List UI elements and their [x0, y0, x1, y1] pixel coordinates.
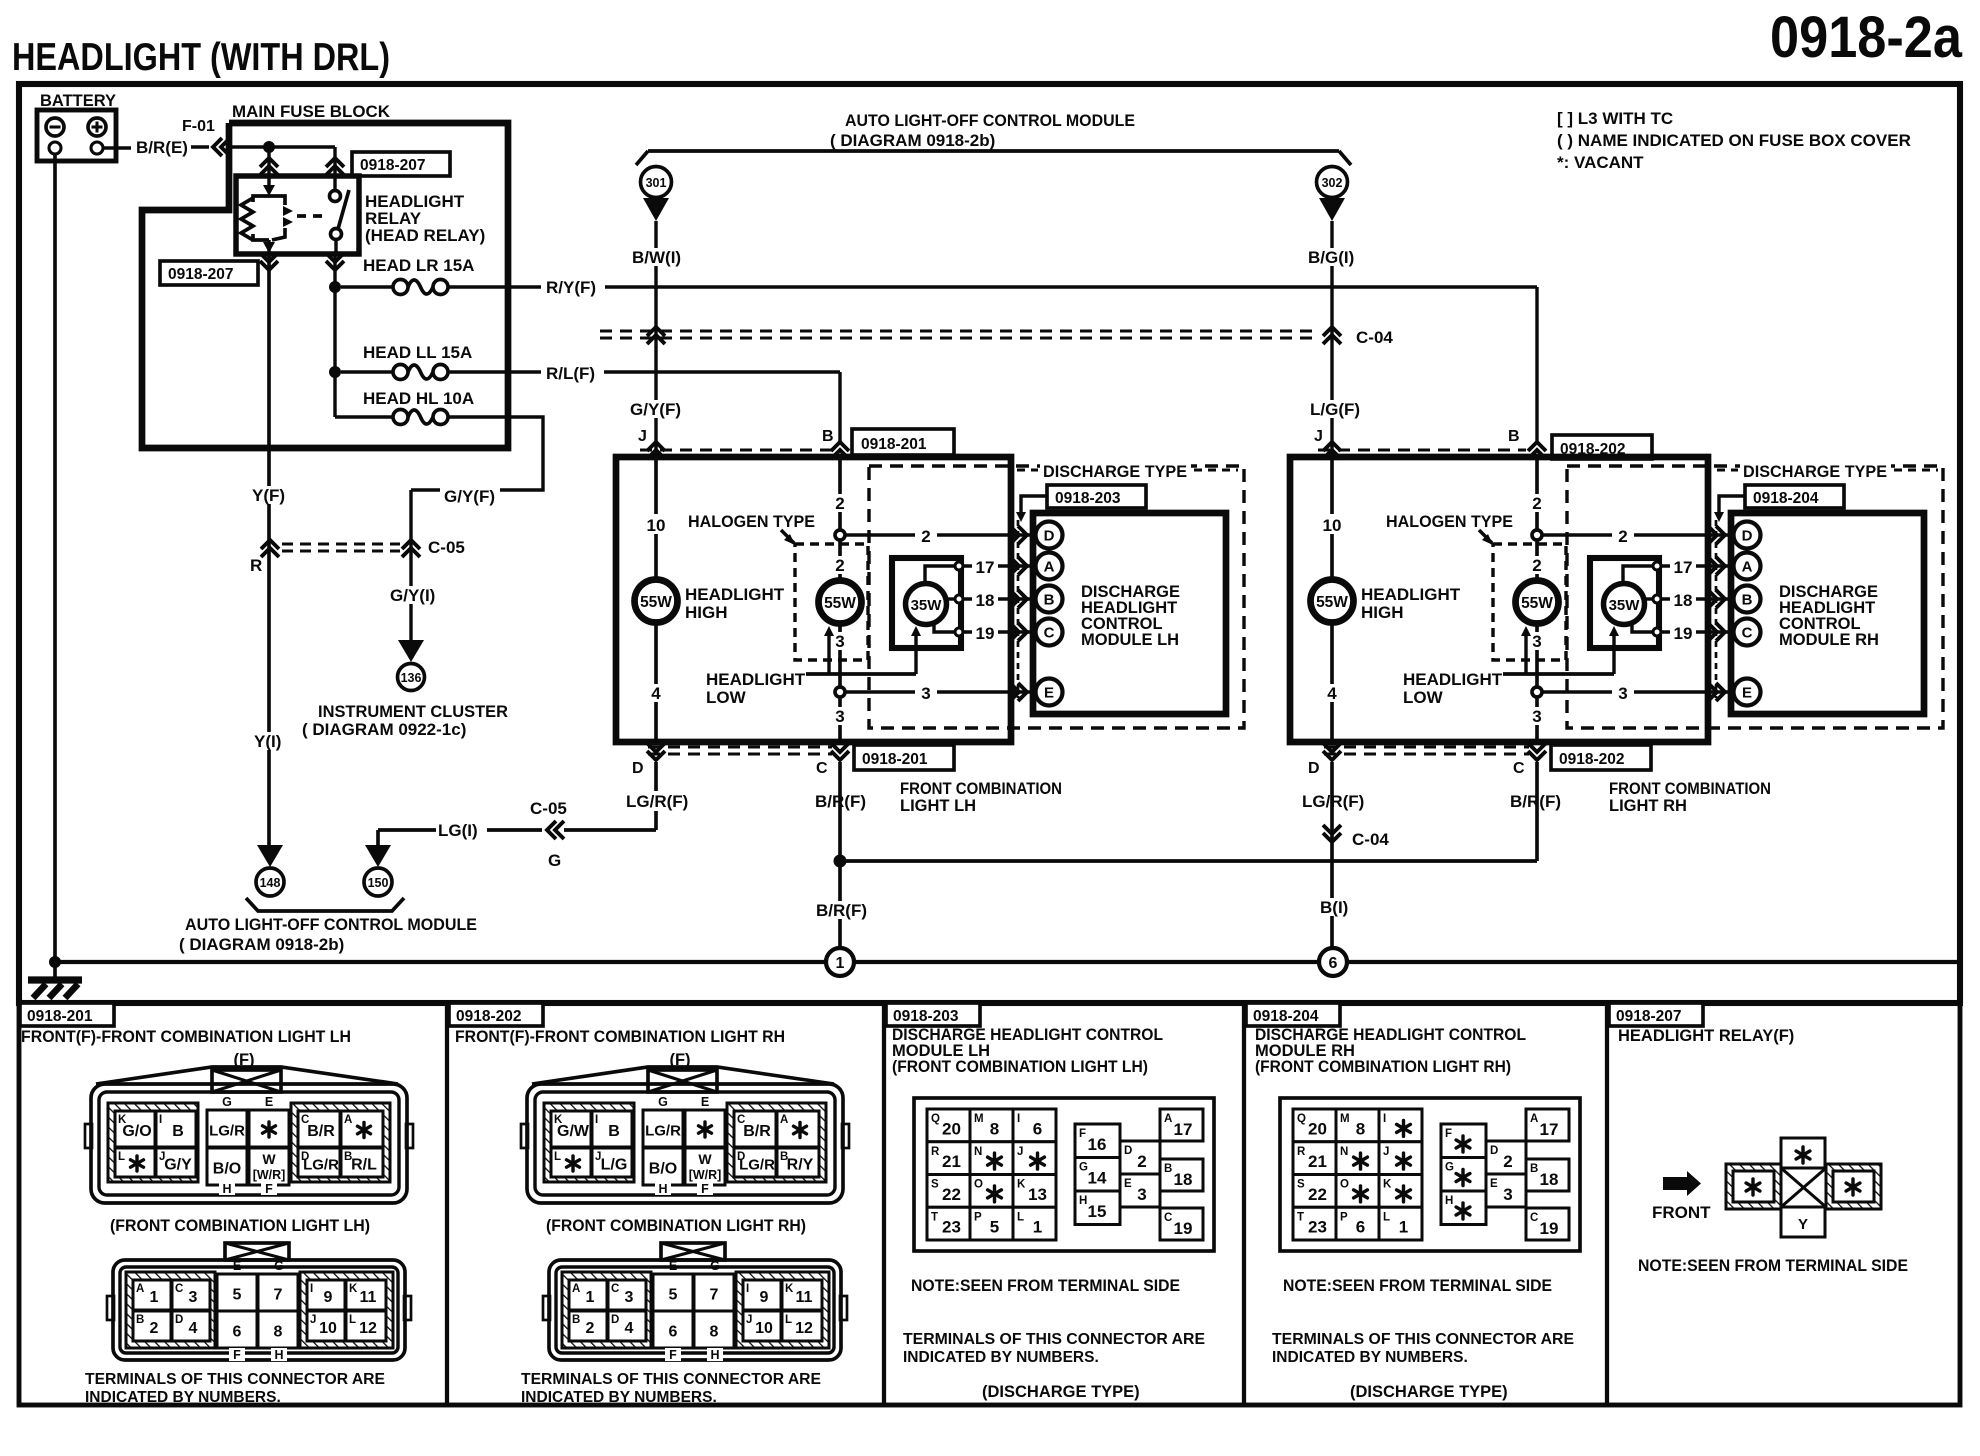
svg-text:2: 2: [1503, 1152, 1512, 1171]
pin line 18 LH: [963, 597, 1035, 600]
svg-text:B: B: [1164, 1163, 1172, 1175]
wire B/R(F) RH down to joint: [1535, 762, 1539, 861]
svg-text:TERMINALS OF THIS CONNECTOR AR: TERMINALS OF THIS CONNECTOR ARE: [903, 1331, 1205, 1348]
bottom panels frame: [19, 1003, 1960, 1405]
svg-text:D: D: [1490, 1145, 1498, 1157]
svg-text:O: O: [1340, 1179, 1349, 1191]
svg-text:C-04: C-04: [1352, 830, 1389, 849]
svg-text:A: A: [1530, 1113, 1538, 1125]
svg-text:NOTE:SEEN FROM TERMINAL SIDE: NOTE:SEEN FROM TERMINAL SIDE: [1638, 1257, 1908, 1275]
svg-text:C: C: [1513, 760, 1525, 777]
svg-text:HEADLIGHT: HEADLIGHT: [1403, 670, 1503, 689]
relay terminal diagram: [1781, 1138, 1825, 1170]
panel tab 0918-207: [1609, 1003, 1703, 1026]
svg-text:17: 17: [1174, 1120, 1193, 1139]
svg-text:[W/R]: [W/R]: [689, 1168, 722, 1182]
svg-text:E: E: [1742, 685, 1752, 702]
svg-text:0918-202: 0918-202: [1559, 751, 1625, 768]
svg-text:23: 23: [942, 1218, 961, 1237]
pin line 19 LH: [963, 630, 1035, 633]
svg-text:L: L: [118, 1151, 125, 1163]
relay contact dashed link: [297, 214, 327, 218]
svg-text:S: S: [931, 1179, 939, 1191]
svg-text:6: 6: [1329, 955, 1338, 972]
pin line 2 to D RH: [1541, 533, 1733, 536]
svg-text:19: 19: [1540, 1219, 1559, 1238]
svg-text:(FRONT COMBINATION LIGHT RH): (FRONT COMBINATION LIGHT RH): [546, 1217, 806, 1235]
svg-text:H: H: [658, 1182, 667, 1196]
svg-text:6: 6: [233, 1324, 242, 1341]
svg-text:( ) NAME INDICATED ON FUSE BOX: ( ) NAME INDICATED ON FUSE BOX COVER: [1557, 131, 1911, 150]
svg-text:L: L: [785, 1314, 792, 1326]
svg-text:G/Y: G/Y: [164, 1157, 192, 1174]
bracket line: [648, 149, 1339, 153]
terminal grid letters RH: [544, 1103, 634, 1182]
svg-text:2: 2: [1618, 527, 1627, 546]
svg-text:L/G(F): L/G(F): [1310, 400, 1360, 419]
svg-text:1: 1: [150, 1289, 159, 1306]
svg-text:4: 4: [651, 684, 661, 703]
svg-text:Y: Y: [1798, 1216, 1808, 1233]
wire G/Y(F) from fuse to instrument cluster branch: [448, 417, 543, 490]
svg-text:G/Y(F): G/Y(F): [630, 400, 681, 419]
svg-text:G/W: G/W: [557, 1123, 590, 1140]
label box 0918-204: [1745, 485, 1844, 508]
svg-text:LG/R: LG/R: [209, 1123, 245, 1140]
svg-text:TERMINALS OF THIS CONNECTOR AR: TERMINALS OF THIS CONNECTOR ARE: [1272, 1331, 1574, 1348]
svg-text:21: 21: [1308, 1152, 1327, 1171]
module pin A LH: [1036, 553, 1063, 580]
svg-text:INSTRUMENT CLUSTER: INSTRUMENT CLUSTER: [318, 702, 508, 721]
svg-text:HEADLIGHT: HEADLIGHT: [685, 585, 785, 604]
pin line 3 to E RH: [1541, 690, 1733, 693]
svg-text:E: E: [1490, 1178, 1498, 1190]
svg-text:5: 5: [669, 1287, 678, 1304]
module pin A RH: [1734, 553, 1761, 580]
ground symbol: [49, 956, 61, 968]
svg-text:22: 22: [1308, 1185, 1327, 1204]
svg-text:K: K: [785, 1283, 794, 1295]
svg-text:3: 3: [1137, 1185, 1146, 1204]
svg-text:J: J: [746, 1314, 752, 1326]
svg-text:FRONT(F)-FRONT COMBINATION LIG: FRONT(F)-FRONT COMBINATION LIGHT LH: [21, 1028, 351, 1046]
pin line 17 LH: [963, 564, 1035, 567]
svg-text:G: G: [274, 1259, 284, 1273]
low beam wire pin2 LH: [838, 457, 842, 581]
svg-text:18: 18: [1674, 591, 1693, 610]
svg-text:DISCHARGE TYPE: DISCHARGE TYPE: [1043, 462, 1187, 481]
ground bus line: [55, 960, 1957, 964]
connector chevrons above headlight relay: [260, 158, 278, 167]
discharge module connector LH: [914, 1098, 1214, 1251]
svg-text:I: I: [595, 1114, 598, 1126]
discharge headlight control module LH box: [1033, 513, 1226, 714]
svg-text:F: F: [1079, 1128, 1086, 1140]
svg-text:LIGHT RH: LIGHT RH: [1609, 797, 1687, 815]
svg-text:8: 8: [1356, 1119, 1365, 1138]
svg-text:G: G: [710, 1259, 720, 1273]
svg-text:HEAD HL 10A: HEAD HL 10A: [363, 389, 474, 408]
svg-text:HEADLIGHT RELAY(F): HEADLIGHT RELAY(F): [1618, 1027, 1794, 1045]
main diagram border frame: [19, 84, 1960, 1003]
discharge type label RH: [1740, 461, 1891, 480]
svg-text:9: 9: [324, 1289, 333, 1306]
svg-text:B/R: B/R: [307, 1123, 335, 1140]
svg-text:FRONT: FRONT: [1652, 1203, 1711, 1222]
svg-text:FRONT(F)-FRONT COMBINATION LIG: FRONT(F)-FRONT COMBINATION LIGHT RH: [455, 1028, 785, 1046]
svg-text:E: E: [233, 1259, 241, 1273]
terminal connector numbers LH: [225, 1243, 289, 1260]
svg-text:HIGH: HIGH: [685, 603, 728, 622]
svg-text:11: 11: [360, 1289, 377, 1306]
discharge module connector RH: [1280, 1098, 1580, 1251]
svg-text:FRONT COMBINATION: FRONT COMBINATION: [900, 780, 1062, 798]
low beam wire pin2 RH: [1535, 457, 1539, 581]
arrow into instrument cluster connector 136: [398, 640, 424, 662]
connector 301: [641, 167, 672, 198]
svg-text:P: P: [974, 1211, 982, 1223]
svg-text:HALOGEN TYPE: HALOGEN TYPE: [1386, 512, 1513, 531]
svg-text:INDICATED BY NUMBERS.: INDICATED BY NUMBERS.: [903, 1349, 1099, 1366]
panel separator: [882, 1003, 886, 1405]
svg-text:17: 17: [1540, 1120, 1559, 1139]
panel tab 0918-203: [886, 1003, 980, 1026]
panel separator: [1605, 1003, 1609, 1405]
svg-text:35W: 35W: [1609, 597, 1641, 614]
svg-text:LG/R: LG/R: [303, 1157, 339, 1174]
svg-text:19: 19: [976, 624, 995, 643]
svg-text:M: M: [974, 1113, 984, 1125]
connector shell F LH: [96, 1067, 398, 1084]
svg-text:( DIAGRAM 0918-2b): ( DIAGRAM 0918-2b): [830, 131, 995, 150]
relay switch: [333, 147, 336, 190]
svg-text:L: L: [349, 1314, 356, 1326]
svg-text:HEADLIGHT: HEADLIGHT: [706, 670, 806, 689]
svg-text:I: I: [310, 1283, 313, 1295]
svg-text:A: A: [1044, 559, 1055, 576]
svg-text:22: 22: [942, 1185, 961, 1204]
svg-text:21: 21: [942, 1152, 961, 1171]
svg-text:MAIN FUSE BLOCK: MAIN FUSE BLOCK: [232, 102, 391, 121]
svg-text:C-04: C-04: [1356, 328, 1393, 347]
svg-text:L/G: L/G: [601, 1157, 628, 1174]
svg-text:20: 20: [942, 1119, 961, 1138]
pin line 19 RH: [1661, 630, 1733, 633]
svg-text:B/O: B/O: [213, 1161, 241, 1178]
svg-text:3: 3: [921, 684, 930, 703]
headlight relay box: [236, 176, 359, 254]
svg-text:I: I: [159, 1114, 162, 1126]
svg-text:INDICATED BY NUMBERS.: INDICATED BY NUMBERS.: [521, 1389, 717, 1406]
svg-text:F-01: F-01: [182, 118, 215, 135]
svg-text:8: 8: [274, 1324, 283, 1341]
high beam wire pin10 RH: [1330, 457, 1334, 580]
svg-text:NOTE:SEEN FROM TERMINAL SIDE: NOTE:SEEN FROM TERMINAL SIDE: [1283, 1277, 1552, 1295]
svg-text:L: L: [1017, 1211, 1024, 1223]
svg-text:K: K: [1383, 1179, 1392, 1191]
svg-text:Q: Q: [1297, 1113, 1306, 1125]
svg-text:17: 17: [976, 558, 995, 577]
svg-text:G: G: [548, 851, 561, 870]
svg-text:C: C: [1164, 1212, 1172, 1224]
pin line 17 RH: [1661, 564, 1733, 567]
svg-text:55W: 55W: [824, 595, 856, 612]
svg-text:55W: 55W: [1316, 594, 1348, 611]
wire B/W(I) / G/Y(F) to LH light: [654, 221, 657, 457]
wire LG(I) from C-05 to LH light D terminal: [378, 828, 436, 832]
svg-text:[ ] L3 WITH TC: [ ] L3 WITH TC: [1557, 109, 1673, 128]
svg-text:3: 3: [625, 1289, 634, 1306]
svg-text:R/Y(F): R/Y(F): [546, 278, 596, 297]
svg-text:LOW: LOW: [706, 688, 747, 707]
svg-text:D: D: [1742, 528, 1753, 545]
svg-text:2: 2: [921, 527, 930, 546]
svg-text:A: A: [1742, 559, 1753, 576]
connector C-04 dashed pair upper: [600, 329, 1320, 332]
svg-text:A: A: [572, 1283, 580, 1295]
bulb 55W headlight high LH: [635, 580, 678, 623]
svg-text:B: B: [572, 1314, 580, 1326]
svg-text:LG/R: LG/R: [739, 1157, 775, 1174]
svg-text:H: H: [1445, 1195, 1453, 1207]
module pin E LH: [1036, 679, 1063, 706]
svg-text:O: O: [974, 1179, 983, 1191]
svg-text:F: F: [265, 1182, 273, 1196]
svg-text:B/R: B/R: [743, 1123, 771, 1140]
svg-text:T: T: [931, 1211, 938, 1223]
svg-text:R: R: [1297, 1146, 1306, 1158]
svg-text:0918-201: 0918-201: [27, 1008, 93, 1025]
bulb 35W discharge LH box: [892, 558, 961, 648]
svg-text:150: 150: [368, 876, 389, 890]
panel tab 0918-202: [449, 1003, 543, 1026]
svg-text:H: H: [222, 1182, 231, 1196]
connector 302: [1317, 167, 1348, 198]
svg-text:2: 2: [1137, 1152, 1146, 1171]
svg-text:55W: 55W: [640, 594, 672, 611]
svg-text:N: N: [974, 1146, 982, 1158]
svg-text:FRONT COMBINATION: FRONT COMBINATION: [1609, 780, 1771, 798]
svg-text:R: R: [250, 556, 262, 575]
svg-text:( DIAGRAM 0922-1c): ( DIAGRAM 0922-1c): [302, 720, 466, 739]
svg-text:301: 301: [646, 176, 667, 190]
svg-text:E: E: [265, 1095, 273, 1109]
svg-text:4: 4: [625, 1320, 634, 1337]
svg-text:7: 7: [274, 1287, 283, 1304]
svg-text:302: 302: [1322, 176, 1343, 190]
svg-text:11: 11: [796, 1289, 813, 1306]
svg-text:0918-202: 0918-202: [456, 1008, 522, 1025]
svg-text:0918-201: 0918-201: [862, 751, 928, 768]
svg-text:B: B: [608, 1123, 620, 1140]
label LG/R(F) LH: [624, 791, 690, 811]
arrow into module connector 150: [376, 830, 380, 845]
svg-text:G/Y(F): G/Y(F): [444, 487, 495, 506]
connector row RH 0918-202 top: [1318, 448, 1526, 451]
label LG/R(F) RH: [1300, 791, 1366, 811]
svg-text:I: I: [1017, 1113, 1020, 1125]
svg-text:D: D: [1308, 760, 1320, 777]
svg-text:2: 2: [835, 556, 844, 575]
svg-text:H: H: [1079, 1195, 1087, 1207]
svg-text:R/L(F): R/L(F): [546, 364, 595, 383]
svg-text:MODULE LH: MODULE LH: [1081, 631, 1179, 649]
svg-text:1: 1: [1033, 1218, 1042, 1237]
svg-text:T: T: [1297, 1211, 1304, 1223]
svg-text:13: 13: [1028, 1185, 1047, 1204]
svg-text:3: 3: [1503, 1185, 1512, 1204]
svg-text:6: 6: [1356, 1218, 1365, 1237]
module pin E RH: [1734, 679, 1761, 706]
svg-text:W: W: [698, 1151, 712, 1167]
ground connector 1: [826, 948, 854, 976]
svg-text:2: 2: [1532, 494, 1541, 513]
svg-text:2: 2: [150, 1320, 159, 1337]
low beam wire pin3 RH: [1535, 623, 1539, 742]
svg-text:Y(I): Y(I): [254, 732, 281, 751]
svg-text:INDICATED BY NUMBERS.: INDICATED BY NUMBERS.: [85, 1389, 281, 1406]
svg-text:2: 2: [1532, 556, 1541, 575]
svg-text:18: 18: [1174, 1170, 1193, 1189]
svg-text:HEAD LR 15A: HEAD LR 15A: [363, 256, 474, 275]
svg-text:16: 16: [1088, 1135, 1107, 1154]
svg-text:AUTO LIGHT-OFF CONTROL MODULE: AUTO LIGHT-OFF CONTROL MODULE: [845, 111, 1135, 130]
svg-text:HEADLIGHT: HEADLIGHT: [1361, 585, 1461, 604]
label B/R(F) RH: [1508, 791, 1564, 811]
svg-text:A: A: [344, 1114, 352, 1126]
label box 0918-207 left: [160, 261, 258, 285]
svg-text:17: 17: [1674, 558, 1693, 577]
svg-text:D: D: [611, 1314, 619, 1326]
panel separator: [445, 1003, 449, 1405]
svg-text:A: A: [1164, 1113, 1172, 1125]
connector C-05 dashed pair: [282, 542, 400, 545]
svg-text:20: 20: [1308, 1119, 1327, 1138]
svg-text:B: B: [1508, 428, 1520, 445]
bulb 35W discharge RH box: [1590, 558, 1659, 648]
wire B/G(I) / L/G(F) to RH light: [1330, 221, 1333, 457]
svg-text:I: I: [1383, 1113, 1386, 1125]
high beam wire pin4 LH: [654, 622, 658, 742]
wire battery to fuse block B/R(E): [103, 146, 131, 149]
svg-text:18: 18: [976, 591, 995, 610]
connector row LH 0918-201 top: [640, 448, 834, 451]
svg-text:G: G: [1445, 1162, 1454, 1174]
high beam wire pin4 RH: [1330, 622, 1334, 742]
svg-text:C-05: C-05: [428, 538, 465, 557]
svg-text:14: 14: [1088, 1169, 1107, 1188]
svg-text:(HEAD RELAY): (HEAD RELAY): [365, 226, 485, 245]
svg-text:INDICATED BY NUMBERS.: INDICATED BY NUMBERS.: [1272, 1349, 1468, 1366]
front combination light LH box: [616, 457, 1011, 742]
svg-text:0918-2a: 0918-2a: [1770, 5, 1963, 70]
svg-text:0918-207: 0918-207: [168, 266, 234, 283]
svg-text:136: 136: [401, 671, 422, 685]
svg-text:3: 3: [835, 632, 844, 651]
svg-text:B/G(I): B/G(I): [1308, 248, 1354, 267]
label G/Y(I): [388, 586, 436, 604]
discharge headlight control module RH box: [1731, 513, 1924, 714]
svg-text:LOW: LOW: [1403, 688, 1444, 707]
connector chevrons below RH box: [1323, 751, 1341, 760]
svg-text:C: C: [1742, 625, 1753, 642]
module pin C LH: [1036, 619, 1063, 646]
svg-text:B: B: [172, 1123, 184, 1140]
svg-text:C: C: [611, 1283, 619, 1295]
svg-text:A: A: [780, 1114, 788, 1126]
svg-text:0918-203: 0918-203: [1055, 490, 1121, 507]
connector chevrons below LH box: [647, 751, 665, 760]
halogen type dashed box LH: [795, 544, 868, 660]
module pin D LH: [1036, 522, 1063, 549]
svg-text:J: J: [1383, 1146, 1389, 1158]
svg-text:D: D: [1044, 528, 1055, 545]
svg-text:10: 10: [319, 1320, 337, 1337]
svg-text:NOTE:SEEN FROM TERMINAL SIDE: NOTE:SEEN FROM TERMINAL SIDE: [911, 1277, 1180, 1295]
pin line 18 RH: [1661, 597, 1733, 600]
svg-text:1: 1: [586, 1289, 595, 1306]
svg-text:5: 5: [233, 1287, 242, 1304]
bulb 55W headlight low LH: [819, 581, 862, 624]
front combination light RH box: [1290, 457, 1708, 742]
svg-text:M: M: [1340, 1113, 1350, 1125]
discharge type label LH: [1040, 461, 1191, 480]
module pin C RH: [1734, 619, 1761, 646]
svg-text:R/Y: R/Y: [787, 1157, 814, 1174]
svg-text:[W/R]: [W/R]: [253, 1168, 286, 1182]
svg-text:C-05: C-05: [530, 799, 567, 818]
svg-text:LIGHT LH: LIGHT LH: [900, 797, 976, 815]
svg-text:1: 1: [836, 955, 845, 972]
svg-text:TERMINALS OF THIS CONNECTOR AR: TERMINALS OF THIS CONNECTOR ARE: [85, 1371, 385, 1388]
svg-text:L: L: [1383, 1211, 1390, 1223]
svg-text:E: E: [1044, 685, 1054, 702]
label B/R(F) LH: [813, 791, 869, 811]
svg-text:HALOGEN TYPE: HALOGEN TYPE: [688, 512, 815, 531]
svg-text:6: 6: [1033, 1119, 1042, 1138]
svg-text:3: 3: [1532, 632, 1541, 651]
svg-text:3: 3: [1618, 684, 1627, 703]
svg-text:55W: 55W: [1521, 595, 1553, 612]
label Y(I): [252, 732, 290, 750]
svg-text:19: 19: [1174, 1219, 1193, 1238]
svg-text:10: 10: [755, 1320, 773, 1337]
svg-text:12: 12: [359, 1320, 377, 1337]
svg-text:3: 3: [189, 1289, 198, 1306]
svg-text:R: R: [931, 1146, 940, 1158]
svg-text:10: 10: [647, 516, 666, 535]
arrow into module connector 148: [257, 845, 283, 867]
svg-text:B: B: [822, 428, 834, 445]
relay coil: [267, 147, 270, 186]
svg-text:Y(F): Y(F): [252, 486, 285, 505]
svg-text:S: S: [1297, 1179, 1305, 1191]
svg-text:J: J: [638, 428, 647, 445]
svg-text:12: 12: [795, 1320, 813, 1337]
svg-text:8: 8: [990, 1119, 999, 1138]
connector C-04 on B(I) wire: [1323, 833, 1341, 842]
panel separator: [1242, 1003, 1246, 1405]
bracket under connectors 148/150: [246, 898, 404, 911]
low beam wire pin3 LH: [838, 623, 842, 742]
bulb 55W headlight high RH: [1311, 580, 1354, 623]
panel tab 0918-204: [1246, 1003, 1340, 1026]
svg-text:C: C: [1044, 625, 1055, 642]
joint wire to RH B/R: [840, 859, 1537, 863]
junction node on B/R(E) wire: [263, 141, 275, 153]
svg-text:B: B: [1044, 592, 1055, 609]
svg-text:B(I): B(I): [1320, 898, 1348, 917]
